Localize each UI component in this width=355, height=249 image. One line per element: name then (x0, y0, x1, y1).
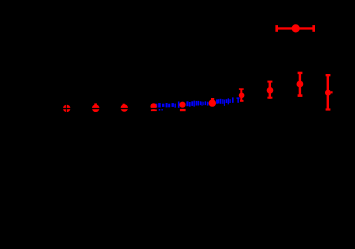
red point P7 bottom cap (240, 100, 244, 102)
blue square B16d (left of red P6) (207, 102, 209, 106)
blue square B15 (200, 101, 201, 105)
blue square B16 (202, 102, 203, 106)
red point P8 bottom cap (267, 97, 272, 99)
red point P6 circle (209, 99, 216, 106)
blue square B24 (229, 99, 230, 103)
blue square B20 (222, 99, 223, 104)
blue square B11 (191, 101, 193, 106)
red point P9 bottom cap (298, 94, 303, 97)
blue square B3 (162, 104, 164, 107)
blue whisker bit below line near B3 (161, 109, 163, 110)
blue point B26 stem (237, 99, 239, 103)
red point P6 top tick (211, 98, 214, 100)
legend error bar (top right): horizontal bar (276, 27, 314, 29)
black reference line (invisible on bg, cuts through markers) (55, 108, 250, 109)
red point P10 bottom cap (326, 108, 331, 110)
legend error bar right cap (312, 25, 315, 32)
blue square B16c (205, 101, 206, 105)
red point P5 circle (179, 102, 185, 108)
red point P10 top cap (326, 74, 331, 76)
red point P8 top cap (267, 81, 272, 83)
blue square B14 (198, 101, 199, 106)
red point P3 circle (121, 104, 128, 111)
red point P10 error bar (327, 75, 329, 110)
red point P8 error bar (269, 81, 271, 99)
red point P1 circle (63, 105, 70, 112)
black vertical error bar over P1 (65, 104, 68, 113)
red point P7 circle (239, 93, 245, 99)
blue square B1 (155, 104, 157, 108)
blue square B2 (158, 103, 161, 107)
blue square B7 (thin) (175, 104, 176, 108)
red point P5 bottom cap (below black line) (180, 109, 186, 111)
red point P9 circle (297, 81, 304, 88)
blue square B4 (166, 103, 168, 107)
blue square B13 (196, 101, 198, 106)
red point P4 bottom cap (below black line) (151, 109, 157, 111)
legend error bar left cap (275, 25, 278, 32)
red point P8 circle (267, 87, 274, 94)
blue square B9 (186, 101, 188, 106)
blue whisker bit below line near B2 (159, 109, 161, 111)
red point P7 top cap (239, 88, 244, 90)
red point P9 error bar (299, 73, 301, 97)
blue square B19 (220, 99, 222, 104)
red point P2 top tick (94, 103, 97, 105)
blue square B16b (thin) (202, 102, 205, 105)
blue square B10 (189, 102, 191, 107)
blue square B5 (168, 104, 170, 108)
red point P3 top tick (123, 104, 125, 105)
blue square B25 (tall) (232, 97, 234, 102)
red point P9 top cap (298, 72, 303, 74)
blue square B23 (tall thin) (228, 98, 229, 104)
blue square B22 (226, 99, 228, 103)
blue square B8 (tall, behind red P5) (178, 102, 180, 108)
blue square B21 (thin, long whisker) (224, 100, 225, 106)
red point P10 circle (325, 90, 331, 96)
red point P2 circle (92, 105, 100, 113)
blue square B6 (172, 103, 174, 107)
blue point B26 (T-shape cap) (237, 97, 240, 99)
red point P4 circle (150, 103, 156, 109)
red point P10 right nub (331, 91, 333, 93)
blue square B18 (218, 99, 219, 103)
blue square B12 (tall) (194, 101, 195, 107)
blue square B17 (right of red P6) (216, 99, 218, 103)
red point P7 error bar (240, 89, 242, 102)
legend point circle (292, 24, 300, 32)
